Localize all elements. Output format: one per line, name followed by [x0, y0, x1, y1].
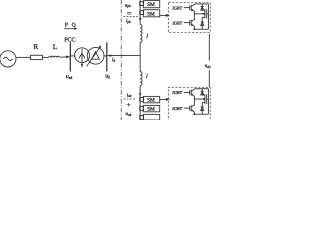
IGBT Q4 emitter [191, 110, 194, 115]
IGBT Q2 emitter [191, 24, 194, 29]
wire bus to MMC leg [107, 55, 140, 57]
diode D2 [201, 17, 203, 29]
diode D4 [201, 103, 203, 115]
callout wire SM to detail lower [160, 98, 167, 100]
arrowhead i_k [109, 54, 113, 57]
dashed boundary lower [123, 98, 136, 100]
svg-text:unk: unk [125, 111, 131, 117]
DC bus lower segment [208, 70, 210, 87]
svg-text:Q: Q [72, 22, 76, 28]
wire load to right bus [104, 55, 107, 57]
IGBT Q2 collector [191, 14, 194, 22]
SM block U2 [143, 10, 159, 17]
svg-text:uk: uk [105, 74, 110, 80]
svg-text:ink: ink [127, 92, 132, 98]
svg-text:IGBT: IGBT [171, 5, 182, 10]
wire bus to load circle [70, 55, 75, 57]
IGBT Q3 gate bar [189, 90, 191, 95]
lower SM detail dashed box [168, 87, 210, 122]
DC bus upper segment [208, 34, 210, 61]
PQ power-flow arrow [64, 28, 75, 30]
svg-text:upk: upk [125, 3, 131, 8]
svg-text:SM: SM [147, 11, 155, 17]
IGBT Q4 collector [191, 99, 194, 107]
svg-text:IGBT: IGBT [171, 90, 182, 95]
IGBT Q3 collector [191, 89, 194, 92]
lower arm inductor l [140, 72, 142, 86]
callout wire SM to detail upper [160, 14, 167, 16]
bottom wire upper box [193, 28, 208, 30]
AC source tilde [3, 57, 12, 60]
bottom wire lower box [193, 113, 208, 115]
svg-text:SM: SM [147, 107, 155, 113]
IGBT Q4 body bar [190, 105, 192, 111]
IGBT Q1 gate bar [189, 5, 191, 10]
lower arm leg wire [139, 56, 141, 72]
midpoint wire upper [194, 13, 204, 15]
svg-text:R: R [33, 43, 38, 51]
SM block L1 [143, 96, 159, 102]
svg-text:l: l [146, 73, 148, 80]
diode D3 [201, 89, 203, 95]
SM terminal square L3 [140, 116, 144, 120]
svg-text:IGBT: IGBT [171, 20, 182, 25]
diode D1 [201, 4, 203, 10]
svg-text:ik: ik [112, 57, 116, 63]
lower leg wire to chain [139, 86, 141, 120]
IGBT Q1 gate lead [184, 7, 190, 9]
nonlinear load circle [87, 47, 104, 64]
upper arm inductor l [140, 25, 142, 43]
svg-text:SM: SM [147, 2, 155, 8]
PCC bus bar [69, 42, 71, 71]
wire L to PCC [60, 56, 70, 58]
IGBT Q2 body bar [190, 20, 192, 26]
svg-text:l: l [146, 33, 148, 40]
svg-text:IGBT: IGBT [171, 106, 182, 111]
wire source to R [16, 56, 30, 58]
top wire lower box [194, 88, 208, 90]
IGBT Q1 body bar [190, 5, 192, 11]
wire R to L [43, 56, 49, 58]
SM block U1 [143, 1, 159, 8]
svg-text:ipk: ipk [126, 18, 131, 24]
harmonic source fletch [79, 53, 85, 58]
svg-text:SM: SM [147, 98, 155, 104]
load triangle [92, 52, 100, 60]
capacitor C upper [204, 9, 206, 18]
adjustable diagonal arrow [87, 48, 100, 67]
midpoint wire lower [194, 98, 204, 100]
junction dot upper [194, 28, 196, 30]
resistor R [30, 55, 42, 59]
IGBT Q4 gate lead [184, 107, 190, 109]
SM terminal square L2 [140, 107, 144, 111]
dash-dot separator [120, 0, 122, 120]
right bus bar [106, 42, 108, 71]
upper arm leg wire [139, 0, 141, 24]
AC source G1 [0, 51, 16, 67]
IGBT Q4 gate bar [189, 106, 191, 111]
upper SM detail dashed box [168, 3, 210, 33]
inductor L [49, 56, 60, 57]
junction dot lower [194, 113, 196, 115]
IGBT Q2 gate bar [189, 20, 191, 25]
IGBT Q2 gate lead [184, 22, 190, 24]
right rail lower box [207, 89, 209, 115]
IGBT Q3 body bar [190, 90, 192, 96]
minus mark upper arm [127, 13, 131, 15]
plus mark upper arm [127, 11, 131, 13]
svg-text:udc: udc [205, 63, 212, 69]
arrowhead into PCC [66, 55, 70, 58]
upper arm current arrowhead [139, 18, 142, 22]
plus mark lower arm [127, 103, 131, 107]
SM terminal square U2 [140, 11, 144, 15]
capacitor C lower [204, 94, 206, 104]
harmonic source arrow [81, 49, 83, 65]
top wire upper box [194, 3, 208, 5]
SM terminal square U1 [140, 2, 144, 6]
SM terminal square L1 [140, 98, 144, 102]
harmonic source circle [75, 48, 90, 63]
IGBT Q1 emitter [191, 9, 194, 14]
dashed boundary upper [123, 16, 137, 18]
IGBT Q3 gate lead [184, 91, 190, 93]
svg-text:P: P [65, 22, 68, 28]
SM block L3 [143, 114, 159, 120]
svg-text:L: L [53, 43, 57, 51]
IGBT Q1 collector [191, 4, 194, 7]
upper leg wire to midpoint [139, 42, 141, 55]
SM block L2 [143, 105, 159, 111]
IGBT Q3 emitter [191, 94, 194, 99]
svg-text:usk: usk [66, 74, 73, 80]
right rail upper box [207, 4, 209, 29]
lower arm current arrowhead [139, 93, 142, 97]
